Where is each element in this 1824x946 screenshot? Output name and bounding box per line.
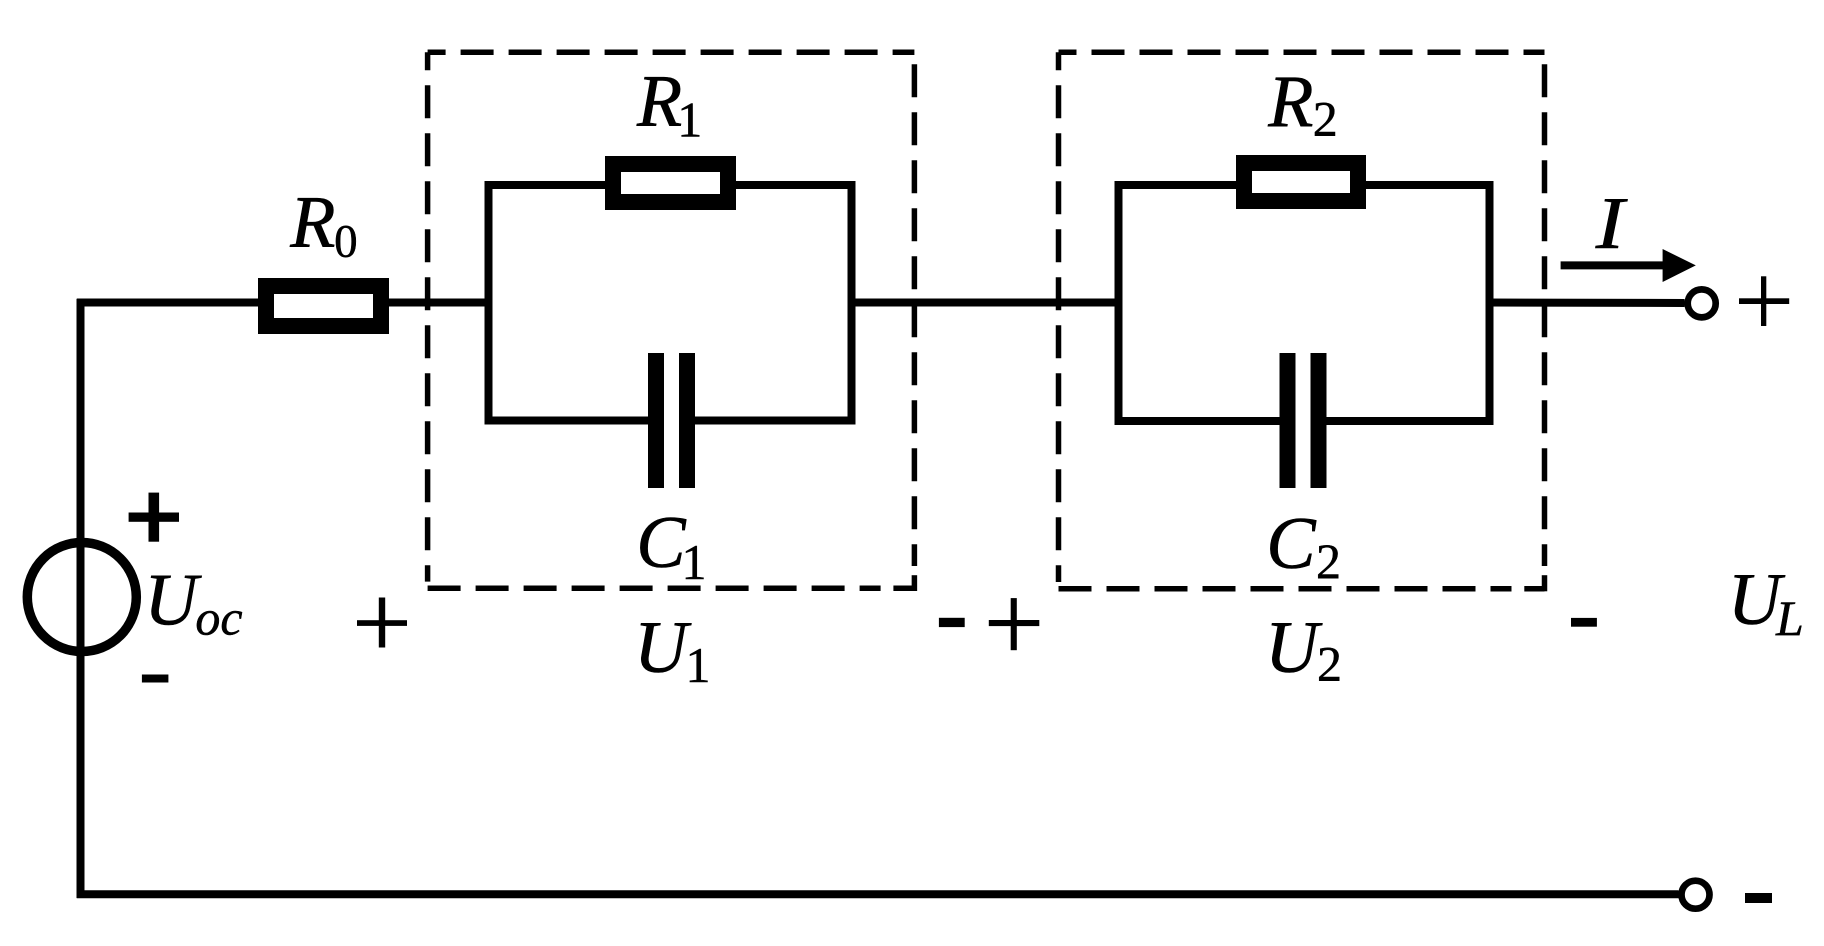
plus sign output top <box>1739 276 1789 326</box>
plus sign U2 left <box>989 598 1040 650</box>
label R2 <box>1267 62 1337 147</box>
svg-text:R: R <box>636 61 682 143</box>
output terminal - (bottom) <box>1682 881 1710 909</box>
wire loop2 to output terminal <box>1486 299 1685 308</box>
minus sign U2 right <box>1571 618 1597 627</box>
svg-text:oc: oc <box>195 590 242 646</box>
svg-text:U: U <box>144 560 202 642</box>
resistor R0 <box>266 286 381 326</box>
label Uoc <box>144 560 242 646</box>
label R1 <box>636 61 702 148</box>
wire loop1 to loop2 <box>848 299 1122 307</box>
svg-text:I: I <box>1595 183 1628 264</box>
resistor R2 <box>1244 163 1358 201</box>
label U1 <box>634 607 711 693</box>
minus sign U1 right <box>939 618 965 627</box>
svg-text:R: R <box>1267 62 1313 144</box>
current arrow I <box>1561 249 1696 282</box>
label C2 <box>1266 503 1341 589</box>
wire loop1 rectangle <box>489 185 852 421</box>
svg-text:2: 2 <box>1316 533 1341 589</box>
dashed box 1 <box>428 52 915 591</box>
minus sign output bottom <box>1745 893 1772 903</box>
wire loop2 rectangle <box>1119 185 1490 421</box>
output terminal + (top) <box>1688 289 1716 317</box>
minus sign Uoc <box>142 675 169 683</box>
wire main left segment <box>77 299 258 307</box>
RC loop 2 <box>1119 185 1490 421</box>
plus sign Uoc <box>129 493 179 542</box>
svg-text:R: R <box>289 182 335 264</box>
wire bottom <box>77 890 1679 898</box>
label C1 <box>636 502 706 590</box>
voltage source Uoc <box>27 543 136 652</box>
svg-text:1: 1 <box>686 637 711 693</box>
svg-text:C: C <box>1266 503 1317 585</box>
label I <box>1595 183 1628 264</box>
dashed box 2 <box>1059 52 1545 591</box>
svg-text:L: L <box>1775 590 1804 646</box>
label UL <box>1728 559 1804 646</box>
label R0 <box>289 182 357 268</box>
wire left vertical <box>77 299 85 898</box>
plus sign U1 left <box>357 598 407 648</box>
svg-text:C: C <box>636 502 687 584</box>
svg-text:U: U <box>1265 607 1323 689</box>
capacitor C1 <box>648 353 695 488</box>
RC loop 1 <box>489 185 852 421</box>
svg-text:1: 1 <box>677 92 702 148</box>
capacitor C2 <box>1280 353 1327 488</box>
svg-text:U: U <box>634 607 692 689</box>
wire R0 to loop1 <box>389 299 492 307</box>
svg-text:0: 0 <box>334 216 358 268</box>
svg-text:1: 1 <box>682 534 707 590</box>
svg-text:2: 2 <box>1313 91 1338 147</box>
svg-text:2: 2 <box>1317 636 1342 692</box>
label U2 <box>1265 607 1342 692</box>
resistor R1 <box>613 164 728 202</box>
